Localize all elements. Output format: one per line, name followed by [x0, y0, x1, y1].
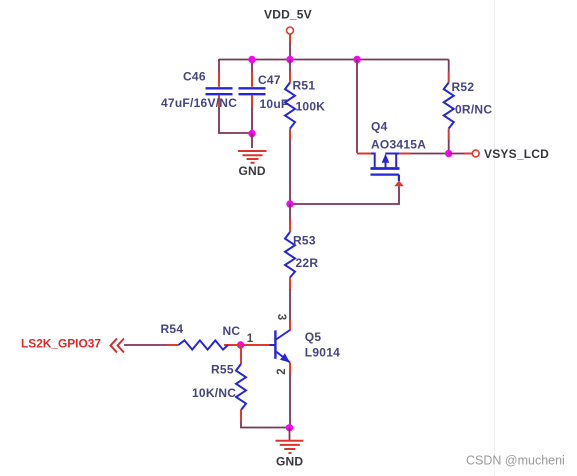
wire GPIO to R54 [124, 344, 167, 346]
wire C47 branch lower [251, 108, 253, 133]
wire R53 upper [289, 204, 291, 220]
wire Q4 gate to node [290, 186, 399, 204]
wire R51 bottom to gate node [289, 140, 291, 205]
page column divider [494, 0, 496, 476]
svg-text:10uF: 10uF [260, 97, 289, 111]
wire R52 upper [448, 60, 450, 72]
svg-text:Q4: Q4 [371, 120, 388, 134]
ground GND2 [276, 441, 304, 469]
svg-text:2: 2 [276, 368, 288, 374]
svg-text:Q5: Q5 [305, 330, 322, 344]
capacitor C47 [239, 72, 289, 111]
wire C46 branch lower [219, 108, 252, 133]
svg-text:100K: 100K [296, 100, 326, 114]
power symbol VDD_5V [264, 8, 312, 44]
svg-text:VDD_5V: VDD_5V [264, 8, 312, 22]
svg-text:CSDN @mucheni: CSDN @mucheni [466, 454, 565, 468]
junction R51 top / VDD [286, 56, 293, 63]
svg-text:R53: R53 [293, 234, 316, 248]
svg-text:VSYS_LCD: VSYS_LCD [484, 147, 549, 161]
svg-text:C47: C47 [258, 73, 281, 87]
svg-text:L9014: L9014 [305, 346, 340, 360]
svg-text:1: 1 [247, 333, 254, 345]
junction C47 top [248, 56, 255, 63]
wire R53 to Q5 collector [289, 289, 291, 320]
wire R51 upper [289, 60, 291, 72]
svg-text:C46: C46 [183, 70, 206, 84]
resistor R52 [444, 72, 493, 140]
power symbol VSYS_LCD [464, 147, 549, 161]
svg-text:R52: R52 [452, 80, 475, 94]
svg-text:GND: GND [276, 455, 303, 469]
svg-text:47uF/16V/NC: 47uF/16V/NC [161, 96, 237, 110]
svg-text:R54: R54 [161, 322, 184, 336]
wire R55 upper pin [240, 346, 242, 364]
pin 2 Q5 emitter [276, 363, 290, 375]
wire GND2 stub [289, 428, 291, 440]
svg-text:AO3415A: AO3415A [371, 137, 426, 151]
transistor Q4 AO3415A [371, 120, 427, 182]
junction VSYS node [445, 150, 452, 157]
junction C46/C47 bottom [248, 130, 255, 137]
pin 1 Q5 base [224, 333, 270, 345]
ground GND1 [238, 151, 267, 178]
svg-text:10K/NC: 10K/NC [192, 386, 236, 400]
junction emitter/GND [286, 424, 293, 431]
svg-text:R51: R51 [293, 79, 316, 93]
capacitor C46 [161, 70, 237, 111]
wire R55 to GND [241, 421, 290, 428]
resistor R54 [161, 322, 241, 350]
transistor Q5 L9014 [270, 330, 341, 363]
wire C46 branch upper [218, 59, 220, 72]
off-page connector LS2K_GPIO37 [21, 337, 124, 353]
gate pin arrow Q4 [394, 181, 404, 187]
resistor R55 [192, 363, 246, 422]
junction gate node [286, 200, 293, 207]
wire Q4 source branch [356, 60, 358, 153]
svg-text:22R: 22R [296, 256, 319, 270]
junction Q5 base node [237, 341, 244, 348]
svg-text:0R/NC: 0R/NC [455, 103, 492, 117]
svg-text:NC: NC [223, 324, 241, 338]
svg-text:3: 3 [275, 314, 287, 320]
wire R52 lower [448, 140, 450, 154]
wire to VSYS_LCD [449, 153, 464, 155]
svg-text:LS2K_GPIO37: LS2K_GPIO37 [21, 337, 101, 351]
wire Q5 emitter to GND [289, 374, 291, 428]
wire GND1 stub [251, 133, 253, 148]
resistor R53 [285, 220, 318, 290]
wire Q4 source pin [357, 153, 371, 155]
wire VDD bus [219, 59, 449, 61]
svg-text:R55: R55 [211, 363, 234, 377]
wire Q4 drain to R52 [411, 153, 449, 155]
wire C47 branch upper [251, 60, 253, 73]
pin 3 Q5 collector [275, 314, 290, 331]
resistor R51 [285, 71, 325, 140]
svg-text:GND: GND [239, 164, 266, 178]
junction Q4 source branch [353, 56, 360, 63]
wire VDD stub [289, 43, 291, 59]
wire Q4 drain pin [399, 153, 411, 155]
